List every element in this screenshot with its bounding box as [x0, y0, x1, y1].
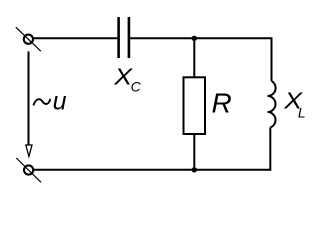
label X_C — [113, 64, 141, 94]
wire right branch bottom vertical — [269, 128, 271, 171]
node junction top — [192, 36, 197, 41]
terminal T2 (bottom input) — [16, 158, 41, 182]
inductor X_L coil — [268, 81, 276, 128]
wire resistor top lead — [193, 38, 195, 77]
resistor R — [184, 77, 206, 134]
wire left branch vertical — [28, 51, 30, 145]
node junction bottom — [192, 167, 197, 172]
arrow (direction of u) — [26, 145, 32, 156]
label X_L — [283, 88, 305, 121]
wire top-left segment — [33, 37, 117, 39]
svg-text:L: L — [298, 105, 306, 121]
capacitor X_C plates — [119, 17, 129, 58]
wire top-right segment — [130, 37, 271, 39]
wire resistor bottom lead — [193, 134, 195, 170]
wire right branch top vertical — [271, 37, 273, 81]
label ~ (AC sign) — [33, 99, 50, 106]
svg-text:R: R — [212, 87, 232, 118]
terminal T1 (top input) — [16, 27, 41, 51]
svg-text:C: C — [131, 78, 142, 94]
wire bottom segment — [33, 169, 270, 171]
svg-text:u: u — [53, 88, 67, 116]
